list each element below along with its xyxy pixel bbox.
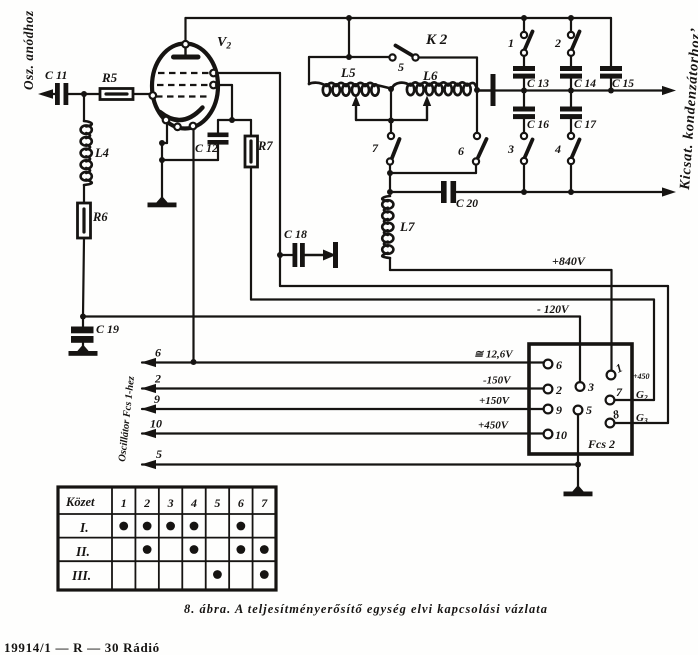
capacitor C14 [560,66,582,71]
wire cathode pin down [166,123,168,143]
wire rail to S2 [570,18,572,32]
wire C16 to S3 [523,119,525,133]
wire R5 to V2 grid [133,93,150,95]
svg-text:C 20: C 20 [456,198,478,210]
wire line 5 [142,463,578,465]
wire R6 to C19 node [83,238,84,316]
tube base pin left [163,117,170,124]
table dots row III [213,570,222,579]
svg-text:6: 6 [155,346,161,360]
svg-text:G2: G2 [636,389,648,402]
wire line 10 +450V [142,432,544,434]
svg-text:Fcs 2: Fcs 2 [587,437,615,451]
inductor L4 [84,121,92,185]
pin 8 [606,419,615,428]
node L7 top [387,189,393,195]
svg-text:10: 10 [555,428,567,442]
capacitor C15 [600,66,622,71]
svg-text:9: 9 [556,403,562,417]
wire L6 to bar [477,89,491,91]
wire line 2 -150V [142,387,544,389]
pin 3 [576,382,585,391]
switch 7 blade [392,139,400,158]
wire C18 to terminal [305,254,326,257]
svg-text:+450V: +450V [478,420,510,432]
wire cathode node [161,143,163,160]
pin 1 [607,371,616,380]
wire junction down [390,89,392,133]
tube base pin right [190,123,197,130]
svg-text:C 15: C 15 [612,78,634,90]
node bus C14 [568,88,574,94]
switch 5 contact right [412,54,418,60]
tube anode [184,48,186,56]
svg-text:2: 2 [143,496,150,510]
wire line 6 12.6V [142,361,544,363]
resistor R5 [100,89,133,100]
wire S1 to C13 [523,56,525,67]
capacitor C13 [513,66,535,71]
wire S5 to S6 column [419,56,477,58]
svg-text:C 17: C 17 [574,119,597,131]
svg-text:V2: V2 [217,35,231,52]
node tap junction [388,118,394,124]
svg-text:K 2: K 2 [425,32,448,48]
svg-text:+450: +450 [633,372,650,381]
terminal arrow C18 [323,250,336,261]
wire C12 bottom [217,145,219,160]
wire output bus [496,89,667,91]
switch 5 blade [396,46,412,56]
svg-text:Közet: Közet [65,495,95,509]
svg-text:C 19: C 19 [96,322,119,336]
svg-text:5: 5 [156,447,162,461]
node rail S4 [568,189,574,195]
svg-text:1: 1 [121,496,127,510]
wire S3 to rail [523,164,525,192]
svg-text:8. ábra. A teljesítményerősí: 8. ábra. A teljesítményerősítő egység el… [184,602,548,616]
svg-text:5: 5 [398,60,404,74]
svg-text:5: 5 [586,403,592,417]
inductor L5 [309,83,375,86]
switch 6 contact bottom [473,158,479,164]
svg-text:7: 7 [261,496,268,510]
wire node to R7 [218,119,251,121]
switch 1 contact bottom [521,50,527,56]
svg-text:2: 2 [555,383,562,397]
node rail-K2 [346,15,352,21]
pin 10 [544,430,553,439]
tube V2 envelope [152,44,218,129]
svg-text:C 13: C 13 [527,78,549,90]
node -120V tap [80,314,86,320]
switch 6 contact top [474,133,480,139]
svg-text:6: 6 [238,496,244,510]
wire cathode to ground [161,160,163,198]
wire junction to L4 [83,94,85,121]
wire C12 top [217,120,219,133]
svg-text:10: 10 [150,417,162,431]
wire C15 to bus [610,79,612,91]
wire grid3 right [216,72,280,74]
svg-text:G3: G3 [636,412,648,425]
wire S4 to rail [570,164,572,192]
switch 1 blade [525,32,533,51]
table band switch grid [58,487,276,590]
svg-text:2: 2 [554,36,561,50]
svg-text:+840V: +840V [552,254,586,268]
svg-text:R6: R6 [92,210,108,224]
pin 2 [544,385,553,394]
switch 2 contact bottom [568,50,574,56]
wire C14 to bus [570,79,572,91]
capacitor C19 [71,327,94,334]
switch 1 contact top [521,32,527,38]
wire S2 to C14 [570,56,572,67]
capacitor C17 [560,107,582,112]
wire rail down to C15 [610,18,612,67]
svg-text:C 12: C 12 [195,141,218,155]
wire input to C11 [42,93,56,95]
tube cathode [160,108,203,121]
node grid2 bias [229,117,235,123]
wire L5 end [379,86,392,89]
pin 9 [544,405,553,414]
svg-text:3: 3 [587,380,594,394]
node C18 tap [277,252,283,258]
svg-text:3: 3 [507,142,514,156]
wire line 9 +150V [142,408,544,410]
switch 2 contact top [568,32,574,38]
svg-text:-150V: -150V [483,375,512,387]
tube grid pin right upper [210,70,217,77]
capacitor C12 [208,140,229,145]
svg-text:7: 7 [616,385,623,399]
switch 6 blade [478,139,487,158]
switch 4 contact top [568,133,574,139]
ground below connector [572,485,585,493]
wire +840V [389,258,391,270]
svg-text:Osz. anódhoz: Osz. anódhoz [21,10,36,90]
ground below tube [156,196,169,204]
svg-text:C 16: C 16 [527,119,549,131]
terminal bar output [491,74,496,106]
input arrow [38,89,53,99]
svg-text:C 14: C 14 [574,78,596,90]
svg-text:9: 9 [154,392,160,406]
ground below C19 [77,345,90,353]
wire C17 to S4 [570,119,572,133]
svg-text:R7: R7 [257,139,273,153]
wire rail to bracket [348,18,350,57]
switch 4 contact bottom [568,158,574,164]
wire tap bus [356,119,427,121]
tube grid pin right lower [210,82,217,89]
svg-text:≅ 12,6V: ≅ 12,6V [474,349,514,361]
tap arrow L5 [355,103,357,120]
svg-text:2: 2 [154,372,161,386]
wire cathode to C12 [162,159,218,161]
svg-text:5: 5 [214,496,220,510]
node rail S3 [521,189,527,195]
table dots row II [143,545,152,554]
svg-text:Kicsat. kondenzátorhoz’: Kicsat. kondenzátorhoz’ [677,27,698,191]
wire R7 to G2 line [250,167,252,300]
wire rail to S1 [523,18,525,32]
resistor R7 [245,136,258,167]
node rail-S2 [568,15,574,21]
wire bus to C17 [570,91,572,108]
wire bottom rail right [457,191,667,193]
inductor L6 [392,82,477,89]
resistor R6 [78,203,91,238]
wire tube pin to line6 [192,130,194,363]
switch 4 blade [572,140,580,159]
node rail-S1 [521,15,527,21]
svg-text:L5: L5 [340,65,356,80]
node bus C13 [521,88,527,94]
wire bottom rail left [390,191,442,193]
output arrow [662,86,676,95]
wire S7-S6 bus [390,172,476,174]
wire to ground [577,465,579,488]
svg-text:II.: II. [75,544,90,559]
pin 5 [574,406,583,415]
wire L4 to R6 [83,185,85,203]
wire bus to C16 [523,91,525,108]
wire C19 to ground [82,342,84,346]
tube grids dashed [156,73,211,97]
svg-text:6: 6 [556,358,562,372]
capacitor C16 [513,107,535,112]
connector Fcs2 box [529,344,632,454]
switch 3 contact bottom [521,158,527,164]
switch 7 contact bottom [387,158,393,164]
node cathode b [159,157,165,163]
svg-text:I.: I. [79,520,89,535]
capacitor C11 [55,83,60,105]
node line5 junction [575,462,581,468]
inductor L7 [382,196,390,258]
switch 5 contact left [389,54,395,60]
terminal bar C18 [333,242,338,268]
wire C13 to bus [523,79,525,91]
svg-text:III.: III. [71,568,91,583]
table dots row I [119,522,128,531]
bottom rail arrow [662,187,676,196]
svg-text:6: 6 [458,144,464,158]
node cathode a [159,140,165,146]
wire node to C19 [82,316,84,327]
switch 3 contact top [521,133,527,139]
tube grid pin left [150,92,157,99]
tube base pin center [174,124,181,131]
tap arrow L6 [426,103,428,120]
svg-text:4: 4 [554,142,561,156]
wire C18 lead [280,254,294,256]
svg-text:3: 3 [167,496,174,510]
wire S7 down [389,165,391,192]
wire G3 line [280,285,668,287]
svg-text:- 120V: - 120V [537,304,570,316]
svg-text:L4: L4 [94,146,109,160]
svg-text:1: 1 [508,36,514,50]
pin 6 [544,360,553,369]
node bracket [346,54,352,60]
svg-text:C 11: C 11 [45,68,67,82]
wire -120V line [83,315,580,317]
node L6 right [474,87,480,93]
svg-text:C 18: C 18 [284,227,307,241]
switch 3 blade [525,140,533,159]
svg-text:L7: L7 [399,219,415,234]
switch 2 blade [572,32,580,51]
wire C11 to R5 [68,93,100,95]
node bus C15 [608,88,614,94]
capacitor C20 [441,181,447,203]
wire top anode rail [186,17,612,19]
node S7 bus [387,170,393,176]
svg-text:L6: L6 [422,68,438,83]
svg-text:Oscillátor Fcs 1-hez: Oscillátor Fcs 1-hez [117,376,137,463]
pin 7 [606,396,615,405]
tube anode pin [182,41,189,48]
svg-text:4: 4 [190,496,197,510]
svg-text:+150V: +150V [479,395,511,407]
wire anode to rail [184,18,186,41]
wire pin5 down [577,415,579,465]
svg-text:19914/1 — R — 30 Rádió: 19914/1 — R — 30 Rádió [4,640,160,655]
svg-text:R5: R5 [101,70,118,85]
svg-text:7: 7 [372,141,379,155]
wire L5 bypass bracket [309,56,389,58]
switch 7 contact top [388,133,394,139]
node input junction [81,91,87,97]
node L5-L6 junction [388,86,394,92]
node on line 6 [191,359,197,365]
wire grid2 to node [216,84,232,86]
capacitor C18 [293,243,298,267]
